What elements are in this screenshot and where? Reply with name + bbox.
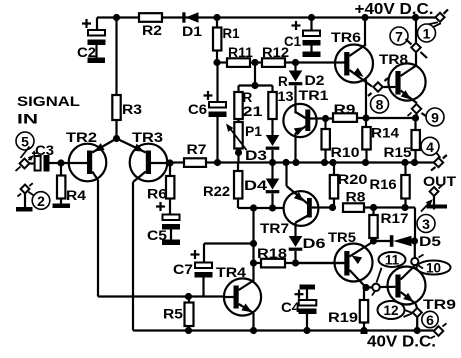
svg-text:8: 8 — [376, 97, 384, 113]
svg-text:21: 21 — [243, 104, 264, 119]
svg-text:6: 6 — [426, 312, 434, 328]
svg-text:40V D.C.: 40V D.C. — [367, 334, 436, 351]
svg-text:D1: D1 — [182, 24, 203, 39]
svg-text:TR6: TR6 — [331, 29, 361, 45]
svg-text:R9: R9 — [334, 102, 356, 117]
svg-text:13: 13 — [278, 89, 295, 104]
svg-text:R8: R8 — [346, 190, 367, 205]
svg-text:TR9: TR9 — [423, 296, 456, 312]
svg-text:R6: R6 — [147, 187, 168, 202]
svg-text:D3: D3 — [245, 148, 268, 163]
svg-text:R11: R11 — [228, 45, 254, 60]
svg-text:R10: R10 — [331, 145, 360, 160]
svg-text:R15: R15 — [384, 145, 413, 160]
svg-text:R17: R17 — [381, 211, 409, 226]
svg-text:TR3: TR3 — [132, 129, 163, 145]
svg-text:R: R — [278, 74, 288, 89]
svg-text:C7: C7 — [173, 262, 193, 277]
svg-text:R12: R12 — [262, 45, 289, 60]
svg-text:D2: D2 — [305, 73, 325, 88]
svg-text:D4: D4 — [244, 178, 268, 193]
svg-text:2: 2 — [37, 193, 45, 209]
svg-text:7: 7 — [395, 29, 403, 45]
svg-text:11: 11 — [385, 253, 400, 268]
svg-text:SIGNAL: SIGNAL — [17, 94, 80, 109]
svg-text:R5: R5 — [163, 307, 184, 322]
svg-text:TR2: TR2 — [66, 129, 97, 145]
svg-text:C4: C4 — [281, 300, 301, 315]
svg-text:3: 3 — [422, 216, 430, 232]
svg-text:R14: R14 — [371, 126, 400, 141]
svg-text:R: R — [243, 90, 253, 105]
svg-text:4: 4 — [426, 139, 434, 155]
svg-text:R18: R18 — [257, 246, 288, 261]
svg-text:R2: R2 — [142, 23, 162, 38]
svg-text:R7: R7 — [187, 142, 207, 157]
svg-text:C3: C3 — [35, 143, 55, 158]
svg-text:10: 10 — [426, 261, 441, 276]
svg-text:IN: IN — [17, 112, 38, 127]
svg-text:12: 12 — [383, 303, 398, 318]
svg-text:R4: R4 — [66, 188, 87, 203]
svg-text:TR1: TR1 — [299, 88, 330, 103]
svg-text:R16: R16 — [370, 177, 398, 192]
svg-text:R3: R3 — [122, 102, 143, 117]
svg-text:R22: R22 — [203, 184, 230, 199]
svg-text:TR7: TR7 — [260, 220, 289, 236]
svg-text:D5: D5 — [419, 234, 442, 249]
svg-text:C2: C2 — [77, 45, 96, 60]
svg-text:R20: R20 — [338, 172, 368, 187]
svg-text:C5: C5 — [147, 228, 168, 243]
svg-text:1: 1 — [423, 26, 431, 42]
svg-text:C6: C6 — [188, 102, 208, 117]
svg-text:D6: D6 — [303, 236, 327, 251]
svg-text:R19: R19 — [328, 310, 358, 325]
svg-text:9: 9 — [431, 110, 439, 126]
svg-text:P1: P1 — [245, 124, 263, 139]
svg-text:R1: R1 — [223, 26, 240, 41]
